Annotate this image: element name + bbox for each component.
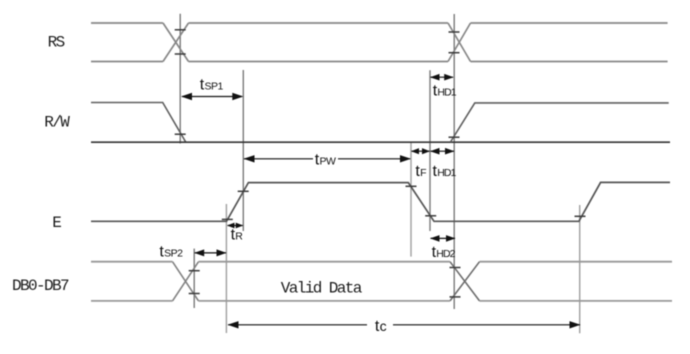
- svg-text:HD2: HD2: [436, 248, 455, 260]
- svg-text:R/W: R/W: [44, 114, 70, 132]
- svg-text:HD1: HD1: [437, 167, 456, 179]
- svg-text:SP2: SP2: [164, 248, 183, 260]
- svg-text:RS: RS: [48, 33, 65, 51]
- svg-text:F: F: [420, 167, 426, 179]
- svg-text:HD1: HD1: [437, 86, 456, 98]
- svg-text:DB0-DB7: DB0-DB7: [12, 277, 69, 295]
- svg-text:SP1: SP1: [205, 81, 224, 93]
- svg-text:PW: PW: [320, 155, 337, 167]
- svg-text:c: c: [380, 318, 387, 334]
- svg-text:E: E: [52, 214, 61, 232]
- svg-text:R: R: [235, 231, 243, 243]
- svg-text:Valid Data: Valid Data: [281, 280, 363, 298]
